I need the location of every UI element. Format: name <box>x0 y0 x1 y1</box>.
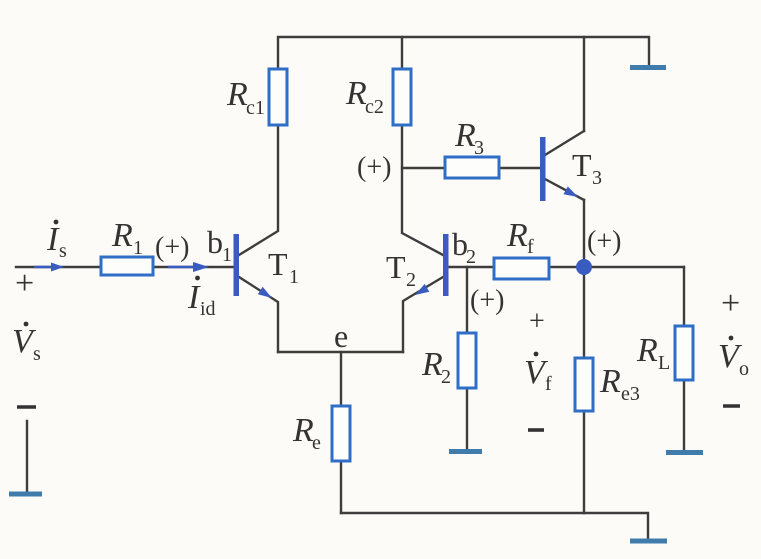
svg-text:(+): (+) <box>470 285 504 316</box>
resistor R3 <box>445 157 499 178</box>
resistor Re <box>332 406 350 461</box>
svg-text:s: s <box>33 343 41 365</box>
svg-text:L: L <box>658 352 670 374</box>
svg-text:R: R <box>454 117 476 154</box>
wire top supply rail <box>278 37 649 69</box>
arrow base current Iid <box>168 266 193 268</box>
svg-text:1: 1 <box>222 244 232 266</box>
svg-text:1: 1 <box>289 266 299 288</box>
svg-text:1: 1 <box>133 237 143 259</box>
wire T2 base to Rf and output node <box>448 266 684 268</box>
label minus Vo <box>723 404 740 408</box>
ground under RL <box>666 450 703 455</box>
node output junction dot <box>576 259 592 275</box>
svg-text:2: 2 <box>441 366 451 388</box>
wire R2 branch down <box>466 267 468 333</box>
ground top right <box>630 65 666 70</box>
arrow T2 emitter <box>415 284 429 295</box>
wire Rc2 top drop <box>401 37 403 69</box>
ground bottom right <box>630 539 667 544</box>
svg-text:(+): (+) <box>155 232 189 263</box>
svg-text:s: s <box>59 240 67 262</box>
svg-text:2: 2 <box>466 246 476 268</box>
svg-text:o: o <box>739 358 749 380</box>
resistor Rc2 <box>393 69 411 125</box>
svg-text:I: I <box>187 279 201 316</box>
svg-text:T: T <box>268 246 288 282</box>
ground under R2 <box>449 449 482 454</box>
wire output node to RL <box>683 267 685 326</box>
resistor RL <box>675 326 693 380</box>
wire Re to bottom rail <box>340 461 342 513</box>
svg-text:R: R <box>506 217 528 254</box>
svg-text:R: R <box>111 217 133 254</box>
wire T2 emitter down <box>403 277 443 352</box>
svg-text:e3: e3 <box>621 383 640 405</box>
svg-text:(+): (+) <box>357 152 391 183</box>
svg-text:f: f <box>545 373 552 395</box>
svg-text:id: id <box>200 298 216 320</box>
wire T3 emitter down through node to Re3 <box>583 200 585 358</box>
wire bottom rail <box>341 513 648 538</box>
svg-text:c1: c1 <box>246 97 265 119</box>
resistor R1 <box>101 257 153 275</box>
svg-text:3: 3 <box>592 167 602 189</box>
svg-text:T: T <box>572 147 592 183</box>
svg-text:+: + <box>721 285 740 322</box>
wire Re3 to bottom rail <box>583 411 585 513</box>
svg-text:T: T <box>386 249 406 285</box>
ground Vs <box>9 492 42 497</box>
svg-text:(+): (+) <box>587 226 621 257</box>
wire T1 emitter to common rail <box>239 277 278 352</box>
svg-text:R: R <box>226 76 248 113</box>
wire e node down to Re <box>340 352 342 406</box>
wire T3 emitter diagonal <box>545 179 584 200</box>
svg-text:R: R <box>599 363 621 400</box>
svg-text:e: e <box>334 318 348 354</box>
svg-text:f: f <box>527 236 534 258</box>
wire input base line to T1 <box>16 266 233 268</box>
arrow T3 emitter <box>564 186 579 197</box>
resistor R2 <box>458 333 476 388</box>
resistor Rf <box>494 258 549 279</box>
svg-text:R: R <box>292 412 314 449</box>
svg-text:+: + <box>529 306 545 337</box>
resistor Rc1 <box>269 69 287 125</box>
label minus Vs <box>17 405 36 409</box>
wire R2 to ground <box>466 388 468 449</box>
wire R3 to T3 base <box>499 167 540 169</box>
svg-text:c2: c2 <box>365 96 384 118</box>
svg-text:R: R <box>421 346 443 383</box>
wire Rc1 bottom to T1 collector <box>239 125 278 255</box>
transistor T2 <box>443 234 449 296</box>
wire emitter rail e <box>278 351 403 353</box>
svg-text:R: R <box>636 332 658 369</box>
label minus Vf <box>528 428 544 432</box>
arrow T1 emitter <box>258 287 272 298</box>
wire T3 collector drop from rail <box>583 37 585 131</box>
resistor Re3 <box>575 358 593 411</box>
wire T3 collector diagonal <box>545 131 584 155</box>
svg-text:e: e <box>312 432 321 454</box>
svg-text:b: b <box>207 224 223 260</box>
wire Rc2 bottom to T2 collector <box>402 125 443 255</box>
transistor T1 <box>234 234 240 296</box>
wire RL to ground <box>683 380 685 450</box>
svg-text:R: R <box>345 75 367 112</box>
wire Rc2 junction to R3 <box>402 167 445 169</box>
transistor T3 <box>540 137 546 201</box>
svg-text:+: + <box>15 265 34 302</box>
wire Vs negative lead <box>26 421 28 491</box>
arrow input current Is <box>34 266 52 268</box>
svg-text:3: 3 <box>474 137 484 159</box>
svg-text:I: I <box>46 221 60 258</box>
svg-text:2: 2 <box>406 269 416 291</box>
